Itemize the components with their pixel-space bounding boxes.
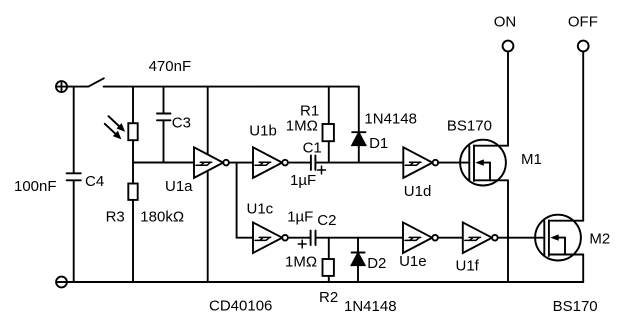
capacitor C3 — [157, 114, 171, 121]
capacitor C4 — [67, 173, 81, 180]
wire rail down to C3 — [163, 87, 165, 114]
inverter U1e — [403, 222, 438, 253]
inverter U1f — [463, 222, 498, 253]
svg-text:BS170: BS170 — [553, 298, 598, 315]
wire node down to U1c input — [236, 163, 238, 238]
plus mark C1 — [318, 166, 326, 174]
inverter U1b — [253, 147, 288, 178]
svg-text:M2: M2 — [589, 231, 610, 248]
svg-text:470nF: 470nF — [149, 58, 192, 75]
wire U1a output to node — [229, 162, 253, 164]
svg-text:D1: D1 — [369, 135, 388, 152]
wire D1 to node — [358, 145, 360, 162]
wire rail down to R1 — [328, 87, 330, 124]
resistor R2 — [323, 259, 334, 276]
svg-text:1µF: 1µF — [287, 208, 313, 225]
svg-text:D2: D2 — [367, 255, 386, 272]
wire ON to M1 drain — [507, 51, 509, 145]
svg-text:U1f: U1f — [456, 258, 480, 275]
wire M1 source to bottom rail — [507, 180, 509, 282]
wire C4 to bottom rail — [73, 180, 75, 282]
inverter U1c — [253, 222, 288, 253]
svg-text:U1c: U1c — [247, 201, 274, 218]
svg-text:1MΩ: 1MΩ — [285, 254, 317, 271]
inverter U1d — [403, 147, 438, 178]
wire node down to D2 — [357, 238, 359, 253]
wire M2 source to bottom rail — [582, 255, 584, 283]
wire bottom rail — [67, 281, 583, 283]
transistor M2 BS170 — [535, 215, 583, 261]
capacitor C2 polarized — [311, 231, 316, 245]
svg-text:100nF: 100nF — [14, 178, 57, 195]
svg-text:1N4148: 1N4148 — [344, 298, 397, 315]
svg-text:R2: R2 — [319, 289, 338, 306]
svg-text:C2: C2 — [317, 212, 336, 229]
svg-text:1N4148: 1N4148 — [364, 111, 417, 128]
plus mark C2 — [298, 240, 306, 248]
svg-text:U1b: U1b — [249, 123, 277, 140]
svg-text:1µF: 1µF — [290, 172, 316, 189]
svg-text:OFF: OFF — [568, 14, 598, 31]
diode D2 — [352, 253, 365, 266]
wire R1 to node — [328, 141, 330, 162]
svg-text:C4: C4 — [85, 173, 104, 190]
wire rail down to LDR — [132, 87, 134, 124]
wire U1f output to M2 gate — [498, 237, 545, 239]
wire U1b output to C1 — [288, 162, 310, 164]
svg-text:180kΩ: 180kΩ — [140, 209, 184, 226]
wire node to U1c — [237, 237, 253, 239]
svg-text:ON: ON — [494, 14, 517, 31]
resistor R1 — [323, 124, 334, 141]
switch S1 blade — [88, 78, 103, 86]
wire node down to R2 — [328, 238, 330, 259]
transistor M1 BS170 — [460, 140, 508, 186]
inverter U1a — [194, 147, 229, 178]
photoresistor LDR body — [128, 123, 137, 140]
wire R3 to bottom rail — [132, 200, 134, 282]
wire U1e output to U1f — [438, 237, 463, 239]
wire LDR to R3 — [132, 140, 134, 183]
svg-text:U1a: U1a — [165, 178, 193, 195]
wire plus rail down to C4 — [73, 87, 75, 174]
terminal plus — [56, 81, 67, 92]
wire D2 to bottom rail — [357, 265, 359, 282]
svg-text:BS170: BS170 — [447, 118, 492, 135]
wire plus terminal to switch — [67, 86, 88, 88]
terminal ON — [503, 41, 514, 52]
wire OFF to M2 drain — [582, 51, 584, 220]
svg-text:M1: M1 — [521, 151, 542, 168]
wire supply line through U1a — [207, 87, 209, 282]
wire R2 to bottom rail — [328, 276, 330, 282]
wire U1c output to C2 — [288, 237, 310, 239]
capacitor C1 polarized — [311, 156, 316, 170]
svg-text:U1d: U1d — [404, 183, 432, 200]
svg-text:C1: C1 — [303, 140, 322, 157]
light arrow 2 — [105, 124, 122, 140]
svg-text:CD40106: CD40106 — [209, 298, 272, 315]
terminal minus — [56, 277, 67, 288]
diode D1 — [352, 132, 365, 145]
light arrow 1 — [109, 116, 126, 132]
resistor R3 — [128, 184, 137, 200]
wire C1 to U1d input — [315, 162, 403, 164]
svg-text:U1e: U1e — [399, 253, 427, 270]
wire LDR node to U1a input — [133, 162, 194, 164]
wire U1d output to M1 gate — [438, 162, 469, 164]
wire C3 to input node — [163, 120, 165, 162]
wire C2 to U1e input — [316, 237, 404, 239]
wire top rail — [104, 86, 359, 88]
svg-text:R3: R3 — [106, 209, 125, 226]
wire rail down to D1 — [358, 87, 360, 133]
svg-text:1MΩ: 1MΩ — [286, 118, 318, 135]
terminal OFF — [578, 41, 589, 52]
svg-text:C3: C3 — [172, 115, 191, 132]
